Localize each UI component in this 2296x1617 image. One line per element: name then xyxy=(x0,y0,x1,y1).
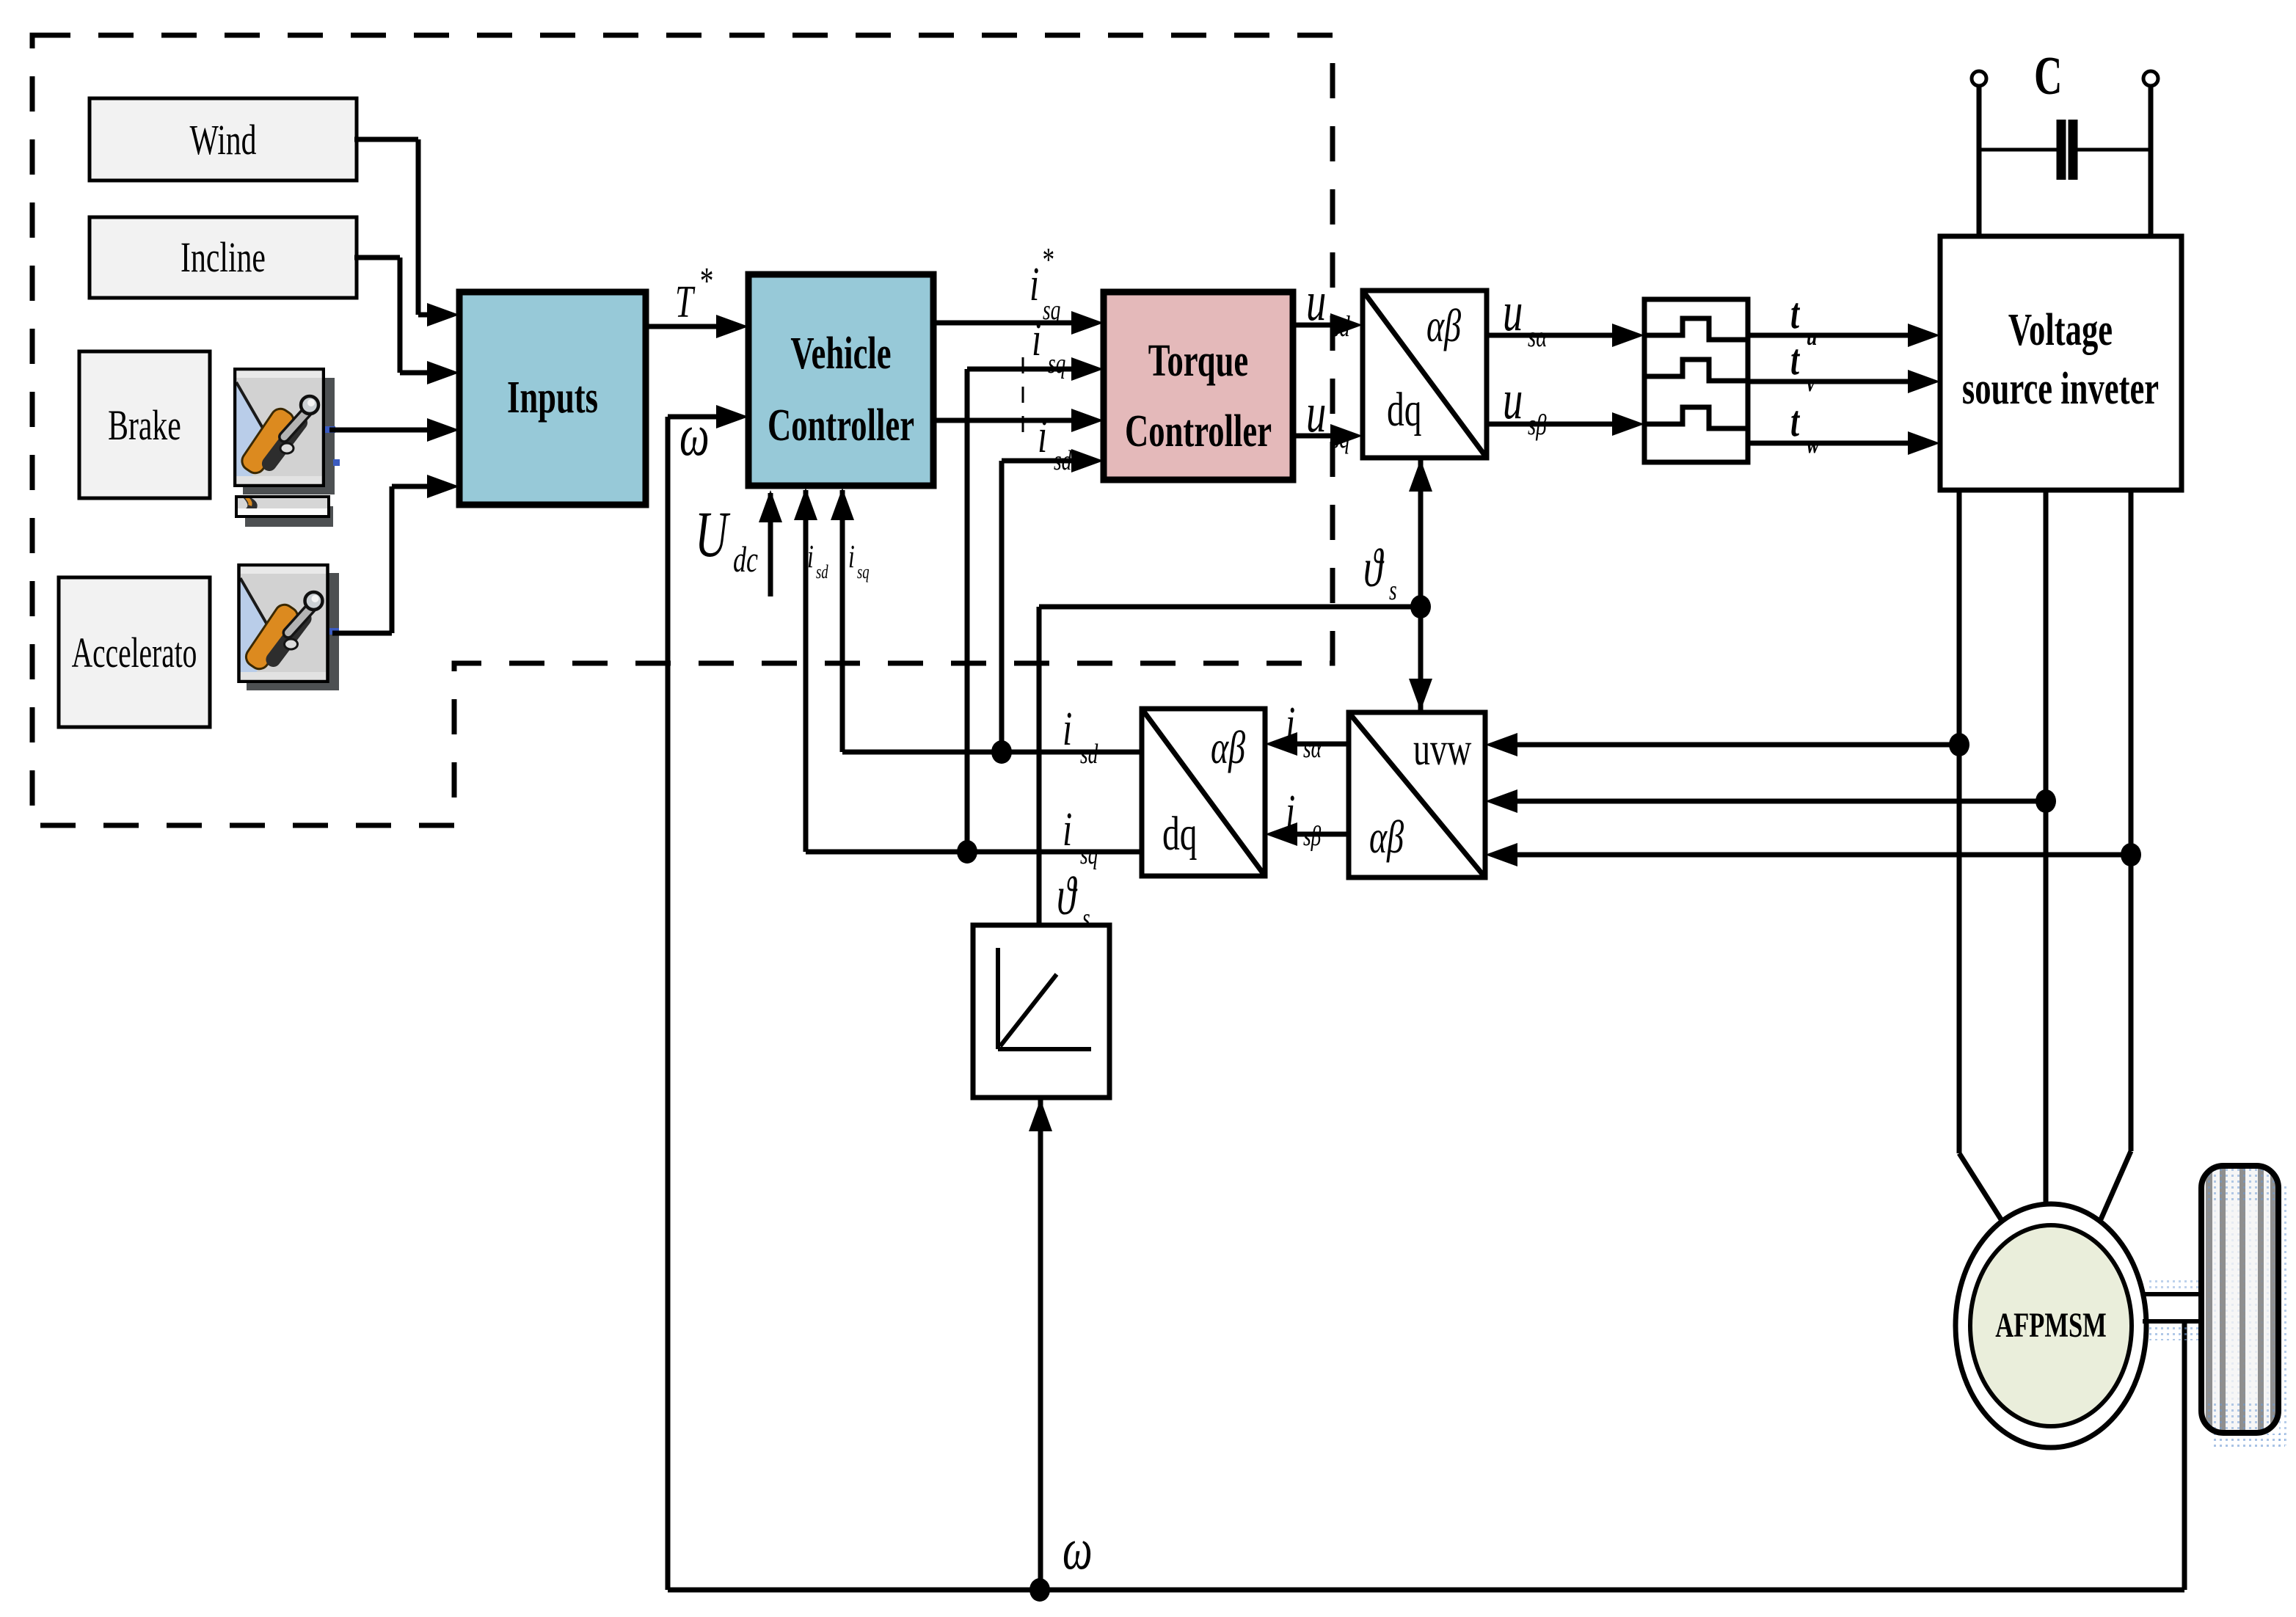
axle motor to wheel xyxy=(2143,1292,2201,1296)
block Voltage source inverter xyxy=(1940,236,2182,490)
junction i_sq to torque controller xyxy=(957,840,977,864)
label T* xyxy=(675,277,696,327)
svg-text:sq: sq xyxy=(1080,839,1098,870)
wire i_sd feedback (dq block to VC) xyxy=(842,750,1142,755)
junction phase w current tap xyxy=(2121,843,2141,866)
terminal right of capacitor xyxy=(2143,71,2158,86)
svg-text:sd: sd xyxy=(1331,310,1350,343)
svg-text:uvw: uvw xyxy=(1413,723,1472,775)
svg-text:t: t xyxy=(1790,397,1800,446)
svg-text:Torque: Torque xyxy=(1148,335,1248,386)
label i_sq (feedback) xyxy=(1063,803,1072,856)
svg-text:dq: dq xyxy=(1162,808,1198,861)
svg-text:Brake: Brake xyxy=(108,401,181,448)
label t_w xyxy=(1790,397,1800,446)
svg-text:T: T xyxy=(675,277,696,327)
svg-text:*: * xyxy=(699,260,713,302)
label i_sd (TC input) xyxy=(1038,410,1047,463)
label C xyxy=(2034,46,2062,106)
svg-text:i: i xyxy=(807,539,814,574)
wire capacitor left leg xyxy=(1977,86,1982,238)
svg-text:t: t xyxy=(1790,335,1800,384)
svg-text:Inputs: Inputs xyxy=(507,372,598,423)
brake pedal blue tick xyxy=(325,426,335,433)
label i_sd (feedback) xyxy=(1063,703,1072,756)
brake pedal stacked sheet xyxy=(236,497,329,517)
svg-text:ω: ω xyxy=(679,404,710,468)
svg-text:sβ: sβ xyxy=(1528,408,1547,441)
wire VC second output to Torque Controller xyxy=(933,418,1076,423)
wire u_sbeta to PWM xyxy=(1487,422,1617,427)
wire i_salpha uvw to dq block xyxy=(1293,742,1349,747)
svg-text:sβ: sβ xyxy=(1303,821,1322,852)
block Torque Controller xyxy=(1104,292,1293,480)
svg-text:i: i xyxy=(1063,703,1072,756)
block PWM modulator xyxy=(1644,299,1748,462)
svg-text:u: u xyxy=(1503,281,1523,343)
block Inputs xyxy=(459,292,646,505)
svg-text:sd: sd xyxy=(1054,445,1072,476)
motor AFPMSM xyxy=(1956,1204,2146,1448)
svg-text:i: i xyxy=(1032,313,1041,366)
junction phase u current tap xyxy=(1949,733,1969,756)
arrow omega into ramp xyxy=(1038,1099,1043,1590)
svg-text:i: i xyxy=(1029,258,1039,311)
svg-text:sα: sα xyxy=(1528,320,1548,353)
block alphabeta to dq (current) xyxy=(1142,709,1265,876)
svg-text:u: u xyxy=(1807,321,1817,351)
svg-text:dc: dc xyxy=(733,539,758,580)
arrow i_sq into Vehicle Controller bottom xyxy=(840,490,845,752)
wire u_sd TC to dq/alphabeta xyxy=(1293,323,1335,328)
label t_u xyxy=(1790,289,1800,338)
svg-text:s: s xyxy=(1389,575,1397,606)
svg-text:Vehicle: Vehicle xyxy=(790,328,891,379)
svg-text:ϑ: ϑ xyxy=(1057,866,1078,926)
svg-text:Controller: Controller xyxy=(1125,406,1272,456)
label u_sbeta xyxy=(1503,369,1523,431)
block Incline xyxy=(90,217,357,298)
svg-text:source inveter: source inveter xyxy=(1962,363,2159,414)
wire current feedback u to uvw block xyxy=(1513,742,1959,748)
wire current feedback v to uvw block xyxy=(1513,799,2046,804)
svg-text:v: v xyxy=(1807,368,1815,397)
dashed system boundary (L-shaped) xyxy=(32,35,1333,825)
svg-text:sd: sd xyxy=(816,561,828,583)
wire Wind to Inputs xyxy=(354,137,418,142)
svg-text:i: i xyxy=(1286,786,1295,839)
label i_sq (TC input) xyxy=(1032,313,1041,366)
svg-text:*: * xyxy=(1041,241,1054,279)
label u_salpha xyxy=(1503,281,1523,343)
label i_sd (small, under VC) xyxy=(807,539,814,574)
label U_dc xyxy=(695,498,731,570)
block ramp generator xyxy=(973,925,1109,1098)
wire Brake to Inputs xyxy=(329,428,431,433)
wire i_sd into Torque Controller xyxy=(999,461,1005,752)
svg-text:αβ: αβ xyxy=(1211,722,1245,774)
accelerator pedal image xyxy=(239,565,328,682)
wire theta_s vertical (dq block to uvw block) xyxy=(1418,459,1424,711)
svg-text:sα: sα xyxy=(1303,733,1322,764)
wire i_sbeta uvw to dq block xyxy=(1293,832,1349,837)
block Wind xyxy=(90,98,357,180)
svg-text:dq: dq xyxy=(1387,384,1422,437)
junction ramp input on omega wire xyxy=(1029,1578,1050,1602)
wire i_sq into Torque Controller xyxy=(965,369,970,852)
svg-text:i: i xyxy=(1063,803,1072,856)
label omega (bottom wire) xyxy=(1063,1517,1093,1582)
wire omega feedback (motor to Vehicle Controller) xyxy=(2182,1321,2187,1590)
svg-text:Controller: Controller xyxy=(768,400,914,450)
artifact small dashed line xyxy=(1022,357,1024,434)
svg-text:sd: sd xyxy=(1080,739,1098,770)
svg-text:sq: sq xyxy=(1043,295,1060,326)
svg-text:Voltage: Voltage xyxy=(2008,304,2113,355)
arrow U_dc into Vehicle Controller xyxy=(768,493,773,596)
arrow i_sd into Vehicle Controller bottom xyxy=(803,490,809,852)
junction phase v current tap xyxy=(2036,789,2056,813)
wire current feedback w to uvw block xyxy=(1513,853,2131,858)
svg-text:sq: sq xyxy=(1331,421,1350,454)
wire phase v (inverter to motor) xyxy=(2044,490,2049,1207)
svg-text:sq: sq xyxy=(1048,348,1065,379)
wire i_sq feedback (dq block to VC) xyxy=(806,850,1142,855)
label i_sbeta xyxy=(1286,786,1295,839)
wire u_sq TC to dq/alphabeta xyxy=(1293,434,1335,439)
svg-text:u: u xyxy=(1306,382,1326,444)
wheel shadow dots xyxy=(2279,1185,2287,1445)
block uvw to alphabeta xyxy=(1349,712,1485,877)
svg-text:Accelerato: Accelerato xyxy=(72,629,197,676)
accelerator pedal image shadow xyxy=(247,573,339,690)
block Vehicle Controller xyxy=(748,274,933,486)
svg-text:w: w xyxy=(1807,429,1820,459)
wire u_salpha to PWM xyxy=(1487,333,1617,338)
wire i*_sq VC to Torque Controller xyxy=(933,321,1076,326)
svg-text:Incline: Incline xyxy=(181,233,266,280)
junction theta_s xyxy=(1410,595,1431,618)
wire phase u (inverter to motor) xyxy=(1957,490,1962,1153)
wire Incline to Inputs xyxy=(354,255,400,260)
block Brake xyxy=(79,351,210,498)
svg-text:ϑ: ϑ xyxy=(1363,539,1385,598)
label theta_s (upper) xyxy=(1363,539,1385,598)
wire theta_s horizontal (from ramp) xyxy=(1039,605,1421,610)
svg-text:i: i xyxy=(1286,698,1295,751)
brake pedal image xyxy=(235,369,324,486)
brake pedal image shadow xyxy=(243,378,335,494)
svg-text:αβ: αβ xyxy=(1426,300,1461,352)
label u_sd xyxy=(1306,271,1326,332)
terminal left of capacitor xyxy=(1972,71,1986,86)
label i_salpha xyxy=(1286,698,1295,751)
svg-text:αβ: αβ xyxy=(1369,811,1404,864)
svg-text:u: u xyxy=(1503,369,1523,431)
svg-text:ω: ω xyxy=(1063,1517,1093,1582)
axle shadow dots xyxy=(2146,1324,2204,1340)
svg-text:i: i xyxy=(848,539,855,574)
svg-text:u: u xyxy=(1306,271,1326,332)
svg-text:Wind: Wind xyxy=(189,116,256,163)
svg-text:i: i xyxy=(1038,410,1047,463)
label omega (at Vehicle Controller) xyxy=(679,404,710,468)
label i*_sq xyxy=(1029,258,1039,311)
wire t_u PWM to inverter xyxy=(1748,333,1912,338)
wire t_w PWM to inverter xyxy=(1748,441,1912,446)
wire T* Inputs to Vehicle Controller xyxy=(646,324,721,329)
label theta_s (at ramp) xyxy=(1057,866,1078,926)
brake pedal stacked-sheet shadow xyxy=(245,506,333,527)
svg-text:t: t xyxy=(1790,289,1800,338)
svg-text:AFPMSM: AFPMSM xyxy=(1995,1307,2107,1346)
wire capacitor right leg xyxy=(2149,86,2154,238)
wire Accelerato to Inputs xyxy=(332,631,392,636)
capacitor C plates and wires xyxy=(1979,148,2057,152)
junction i_sd to torque controller xyxy=(991,740,1012,764)
label t_v xyxy=(1790,335,1800,384)
wire t_v PWM to inverter xyxy=(1748,379,1912,384)
accelerator pedal blue tick xyxy=(329,628,339,635)
wire phase w (inverter to motor) xyxy=(2129,490,2134,1151)
svg-text:sq: sq xyxy=(857,561,870,583)
label i_sq (small, under VC) xyxy=(848,539,855,574)
svg-text:C: C xyxy=(2034,46,2062,106)
block Accelerato xyxy=(59,577,210,727)
label u_sq xyxy=(1306,382,1326,444)
block dq to alphabeta (voltage) xyxy=(1363,291,1487,458)
svg-text:s: s xyxy=(1082,903,1090,934)
svg-text:U: U xyxy=(695,498,731,570)
